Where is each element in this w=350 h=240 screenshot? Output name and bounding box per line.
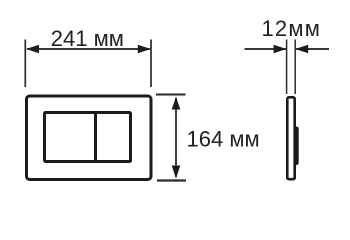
svg-text:164 мм: 164 мм <box>187 127 260 152</box>
svg-text:12мм: 12мм <box>262 16 322 41</box>
svg-text:241 мм: 241 мм <box>51 26 124 51</box>
